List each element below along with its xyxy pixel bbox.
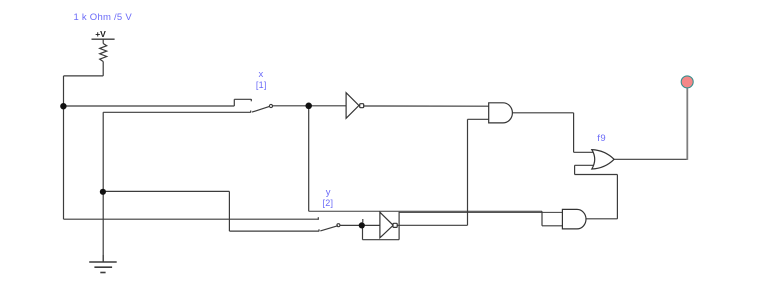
switch y lower contact tick (318, 229, 320, 231)
wire corner up to AND1 (467, 119, 469, 225)
wire wrap bottom (363, 239, 400, 241)
wire node B to inverter U1 (309, 105, 346, 107)
wire switch x step up (233, 99, 235, 106)
wire VCC rail to switch y upper contact (64, 218, 319, 220)
OR gate f9 (592, 150, 614, 169)
resistor R1 1k zigzag (100, 44, 107, 62)
wire AND2 output (586, 218, 617, 220)
inverter U2 triangle (380, 212, 393, 238)
wire down from OR bottom input (574, 165, 576, 174)
wire AND1 output (512, 112, 573, 114)
switch x lower contact tick (250, 111, 252, 113)
LED output indicator (681, 76, 693, 88)
label [1] (256, 81, 267, 91)
wire switch x common to node B (272, 105, 309, 107)
label f9 (597, 134, 606, 144)
wire AND1 lower input (468, 118, 489, 120)
wire inverter U2 output to corner (397, 224, 467, 226)
wire x run over inverter U2 (309, 210, 542, 212)
ground symbol (89, 262, 117, 273)
wire ground rail vertical (102, 112, 104, 261)
wire +V bar to resistor (102, 39, 104, 43)
label [2] (323, 199, 334, 209)
wire node D wrap down (362, 225, 364, 239)
label 1 k Ohm /5 V (74, 13, 132, 23)
wire LED vertical (686, 88, 688, 160)
node D junction dot (359, 222, 365, 228)
label x (259, 70, 264, 80)
inverter U1 bubble (360, 104, 364, 108)
wire up from AND2 output (616, 175, 618, 219)
wire node B down (308, 106, 310, 212)
node D stub up (362, 219, 364, 222)
node A junction dot (60, 103, 66, 109)
switch x lever hook (269, 104, 272, 107)
wire corner down (228, 191, 230, 231)
AND gate 1 (489, 103, 513, 123)
wire switch y common to node D (340, 224, 362, 226)
wire y run parallel (399, 211, 562, 213)
wire wrap up to y run (398, 212, 400, 240)
switch y upper contact tick (317, 217, 319, 220)
power symbol +V bar (92, 38, 115, 40)
switch y lever hook (337, 224, 340, 227)
wire OR gate bottom input (575, 164, 595, 166)
label +V (95, 30, 106, 39)
wire down to node A (63, 76, 65, 106)
wire under OR gate (575, 174, 618, 176)
wire OR gate top input (574, 151, 595, 153)
wire AND2 lower input (542, 225, 562, 227)
label y (326, 188, 331, 198)
wire to switch y lower contact (229, 230, 319, 232)
switch x upper contact tick (250, 99, 252, 101)
node B junction dot (305, 103, 312, 110)
node C junction dot (100, 189, 106, 195)
switch y lever (320, 226, 338, 231)
wire inverter U1 output to AND1 upper input (364, 105, 489, 107)
wire VCC rail down from node A (63, 106, 65, 219)
inverter U1 triangle (346, 93, 359, 119)
wire step down to AND2 lower input (541, 211, 543, 226)
inverter U2 bubble (393, 223, 397, 227)
wire resistor bottom down (102, 62, 104, 76)
wire down to OR input level (573, 113, 575, 153)
ground lead (102, 255, 104, 262)
wire OR output (614, 158, 687, 160)
AND gate 2 (562, 209, 586, 229)
wire switch x upper contact (234, 98, 251, 100)
wire node A to switch x step (64, 105, 235, 107)
wire node D to inverter U2 (362, 224, 380, 226)
wire switch x lower contact (103, 111, 251, 113)
switch x lever (252, 106, 270, 112)
wire node C to right (103, 190, 229, 192)
wire resistor to left (64, 75, 104, 77)
